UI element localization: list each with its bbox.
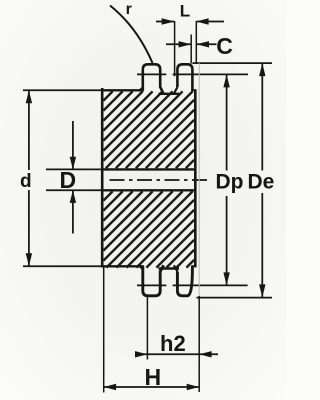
h2 dimension line bbox=[136, 353, 218, 355]
svg-text:H: H bbox=[145, 364, 162, 390]
pitch line bottom right / Dp extension bottom bbox=[173, 284, 248, 286]
De arrow up bbox=[259, 63, 265, 76]
h2 arrow left-pointing at right ext bbox=[199, 351, 211, 357]
d dimension line lower bbox=[28, 190, 30, 266]
hub left edge bbox=[101, 88, 104, 266]
right outer extension faint bbox=[198, 63, 200, 296]
C left extension bbox=[190, 35, 192, 64]
L arrow left-pointing bbox=[196, 18, 208, 24]
H arrow left-pointing bbox=[104, 384, 116, 390]
L dimension line right bbox=[197, 21, 224, 23]
d dimension line upper bbox=[28, 91, 30, 171]
svg-text:r: r bbox=[126, 1, 132, 18]
hub right edge bbox=[194, 90, 197, 266]
svg-text:D: D bbox=[60, 167, 77, 193]
De arrow down bbox=[259, 284, 265, 297]
h2 arrow right-pointing at left ext bbox=[135, 351, 147, 357]
right extension lower for h2 and H bbox=[198, 296, 200, 392]
svg-text:d: d bbox=[20, 171, 32, 192]
De extension top bbox=[192, 62, 272, 64]
Dp dimension line upper bbox=[226, 75, 228, 171]
tooth T3 outer fillet bbox=[140, 266, 143, 269]
L right extension bbox=[195, 21, 197, 63]
pitch line top right / Dp extension top bbox=[173, 73, 248, 75]
L left extension bbox=[174, 21, 176, 76]
bore top line bbox=[102, 168, 195, 170]
hub bottom line bbox=[101, 265, 144, 267]
H dimension line bbox=[104, 386, 199, 388]
groove floor bottom bbox=[159, 267, 180, 269]
C arrow left-pointing bbox=[197, 41, 209, 47]
D top extension bbox=[46, 168, 102, 170]
tooth T2 top-right bbox=[177, 64, 192, 90]
svg-text:De: De bbox=[248, 171, 275, 194]
tooth T1 outer fillet bbox=[140, 87, 143, 90]
hub right step top bbox=[191, 89, 196, 91]
centerline axis bbox=[106, 179, 207, 181]
C arrow right-pointing bbox=[179, 41, 191, 47]
D dimension stub lower bbox=[72, 191, 74, 234]
d arrow down bbox=[26, 253, 32, 266]
bore bottom line bbox=[102, 189, 195, 191]
tooth T4 bottom-right bbox=[177, 266, 192, 296]
H left extension bbox=[103, 267, 105, 393]
tooth T2 inner fillet bbox=[174, 87, 178, 94]
hub top line bbox=[101, 89, 144, 91]
d bottom extension bbox=[23, 265, 105, 267]
svg-text:h2: h2 bbox=[160, 331, 186, 356]
tooth T1 top-left bbox=[143, 64, 164, 94]
pitch line top left tick bbox=[137, 73, 166, 75]
r leader arc bbox=[110, 6, 153, 64]
De dimension line upper bbox=[261, 64, 263, 171]
De dimension line lower bbox=[261, 193, 263, 297]
svg-text:L: L bbox=[180, 2, 190, 21]
C dimension line left bbox=[166, 43, 191, 45]
Dp arrow down bbox=[223, 272, 229, 285]
D dimension stub upper bbox=[72, 121, 74, 169]
d top extension bbox=[23, 89, 101, 91]
h2 left extension bbox=[146, 297, 148, 360]
D bottom extension bbox=[46, 189, 102, 191]
D arrow up to bore bbox=[70, 190, 76, 203]
L arrow right-pointing bbox=[162, 18, 175, 24]
svg-text:Dp: Dp bbox=[216, 171, 244, 194]
tooth T4 inner fillet bbox=[174, 265, 178, 271]
C dimension line right bbox=[197, 43, 217, 45]
groove floor top bbox=[159, 93, 180, 95]
L dimension line left bbox=[156, 21, 174, 23]
De extension bottom bbox=[197, 297, 273, 299]
hub hatched section upper bbox=[103, 91, 194, 168]
pitch line bottom left tick bbox=[137, 284, 166, 286]
tooth T3 bottom-left bbox=[143, 265, 164, 296]
d arrow up bbox=[26, 90, 32, 103]
Dp dimension line lower bbox=[226, 196, 228, 285]
svg-text:C: C bbox=[216, 33, 233, 59]
H arrow right-pointing bbox=[187, 384, 199, 390]
D arrow down to bore bbox=[70, 157, 76, 170]
Dp arrow up bbox=[223, 74, 229, 87]
hub hatched section lower bbox=[103, 191, 194, 267]
hub right step bottom bbox=[191, 265, 196, 267]
